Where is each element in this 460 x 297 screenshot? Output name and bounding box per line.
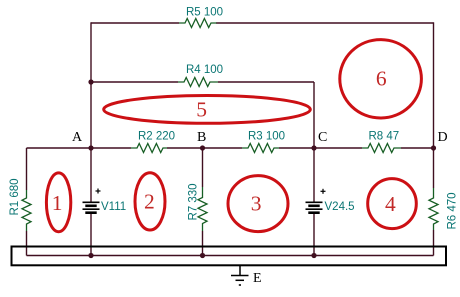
svg-text:6: 6 — [376, 67, 387, 91]
wire right vertical x=434 — [433, 22, 435, 148]
svg-text:R2 220: R2 220 — [138, 131, 175, 143]
svg-text:3: 3 — [251, 192, 262, 216]
svg-text:C: C — [318, 130, 327, 145]
svg-text:R4 100: R4 100 — [186, 64, 223, 76]
loop marker ellipse 2 — [135, 173, 165, 230]
wire R7 branch bottom — [202, 231, 204, 256]
battery V2 plates — [306, 202, 323, 212]
loop marker ellipse 5 — [104, 96, 311, 124]
wire V2 top lead — [313, 148, 315, 202]
svg-text:R5 100: R5 100 — [186, 7, 223, 19]
svg-text:R7 330: R7 330 — [188, 183, 200, 220]
svg-text:V24.5: V24.5 — [325, 201, 355, 213]
wire top loop R5 left segment — [91, 22, 179, 24]
junction node A — [88, 145, 93, 150]
junction V1 bottom — [88, 253, 93, 258]
svg-text:4: 4 — [385, 192, 396, 216]
svg-text:1: 1 — [52, 191, 63, 215]
junction node C — [311, 145, 316, 150]
wire bottom return — [27, 255, 434, 257]
wire node line A-B segment — [27, 147, 132, 149]
wire R4 drop to node C — [313, 82, 315, 148]
junction node B — [200, 145, 205, 150]
resistor R8 symbol — [362, 144, 401, 153]
resistor R3 symbol — [242, 144, 279, 153]
wire R4 right segment — [218, 81, 314, 83]
wire R7 branch top — [202, 148, 204, 187]
ground bus rectangle node E — [12, 247, 447, 266]
svg-text:2: 2 — [144, 190, 155, 214]
svg-text:5: 5 — [196, 98, 207, 122]
loop marker circle 6 — [340, 40, 422, 118]
resistor R4 symbol — [178, 78, 218, 87]
resistor R6 symbol — [429, 188, 438, 230]
wire node line D segment — [401, 147, 434, 149]
wire top loop R5 right segment — [216, 22, 434, 24]
junction V2 bottom — [311, 253, 316, 258]
battery V1 plates — [83, 202, 100, 212]
wire V1 bottom lead — [90, 214, 92, 256]
junction node D — [431, 145, 436, 150]
loop marker circle 4 — [368, 179, 417, 229]
wire node line C segment — [279, 147, 362, 149]
junction R7 bottom — [200, 253, 205, 258]
wire node line B segment — [167, 147, 242, 149]
battery V1 plus sign — [96, 189, 101, 194]
svg-text:A: A — [72, 130, 83, 145]
svg-text:V111: V111 — [101, 201, 126, 213]
resistor R7 symbol — [198, 187, 207, 231]
svg-text:E: E — [253, 271, 262, 286]
wire R1 branch top — [26, 148, 28, 190]
svg-text:B: B — [197, 130, 206, 145]
wire V1 top lead — [90, 148, 92, 202]
resistor R2 symbol — [131, 144, 167, 153]
svg-text:D: D — [438, 130, 448, 145]
wire R4 left segment — [91, 81, 178, 83]
loop marker circle 3 — [228, 176, 288, 232]
svg-text:R1 680: R1 680 — [9, 178, 21, 215]
wire R6 bottom lead — [433, 230, 435, 256]
junction R4 tap — [88, 79, 93, 84]
svg-text:R3 100: R3 100 — [248, 131, 285, 143]
loop marker ellipse 1 — [46, 173, 70, 232]
wire R6 top lead — [433, 148, 435, 188]
svg-text:R6 470: R6 470 — [447, 192, 459, 229]
wire left vertical x=91 top — [90, 22, 92, 148]
ground symbol — [231, 265, 249, 285]
wire R1 branch bottom — [26, 231, 28, 256]
resistor R1 symbol — [22, 190, 31, 231]
wire V2 bottom lead — [313, 214, 315, 256]
battery V2 plus sign — [321, 189, 326, 194]
resistor R5 symbol — [179, 19, 217, 28]
svg-text:R8 47: R8 47 — [369, 131, 400, 143]
